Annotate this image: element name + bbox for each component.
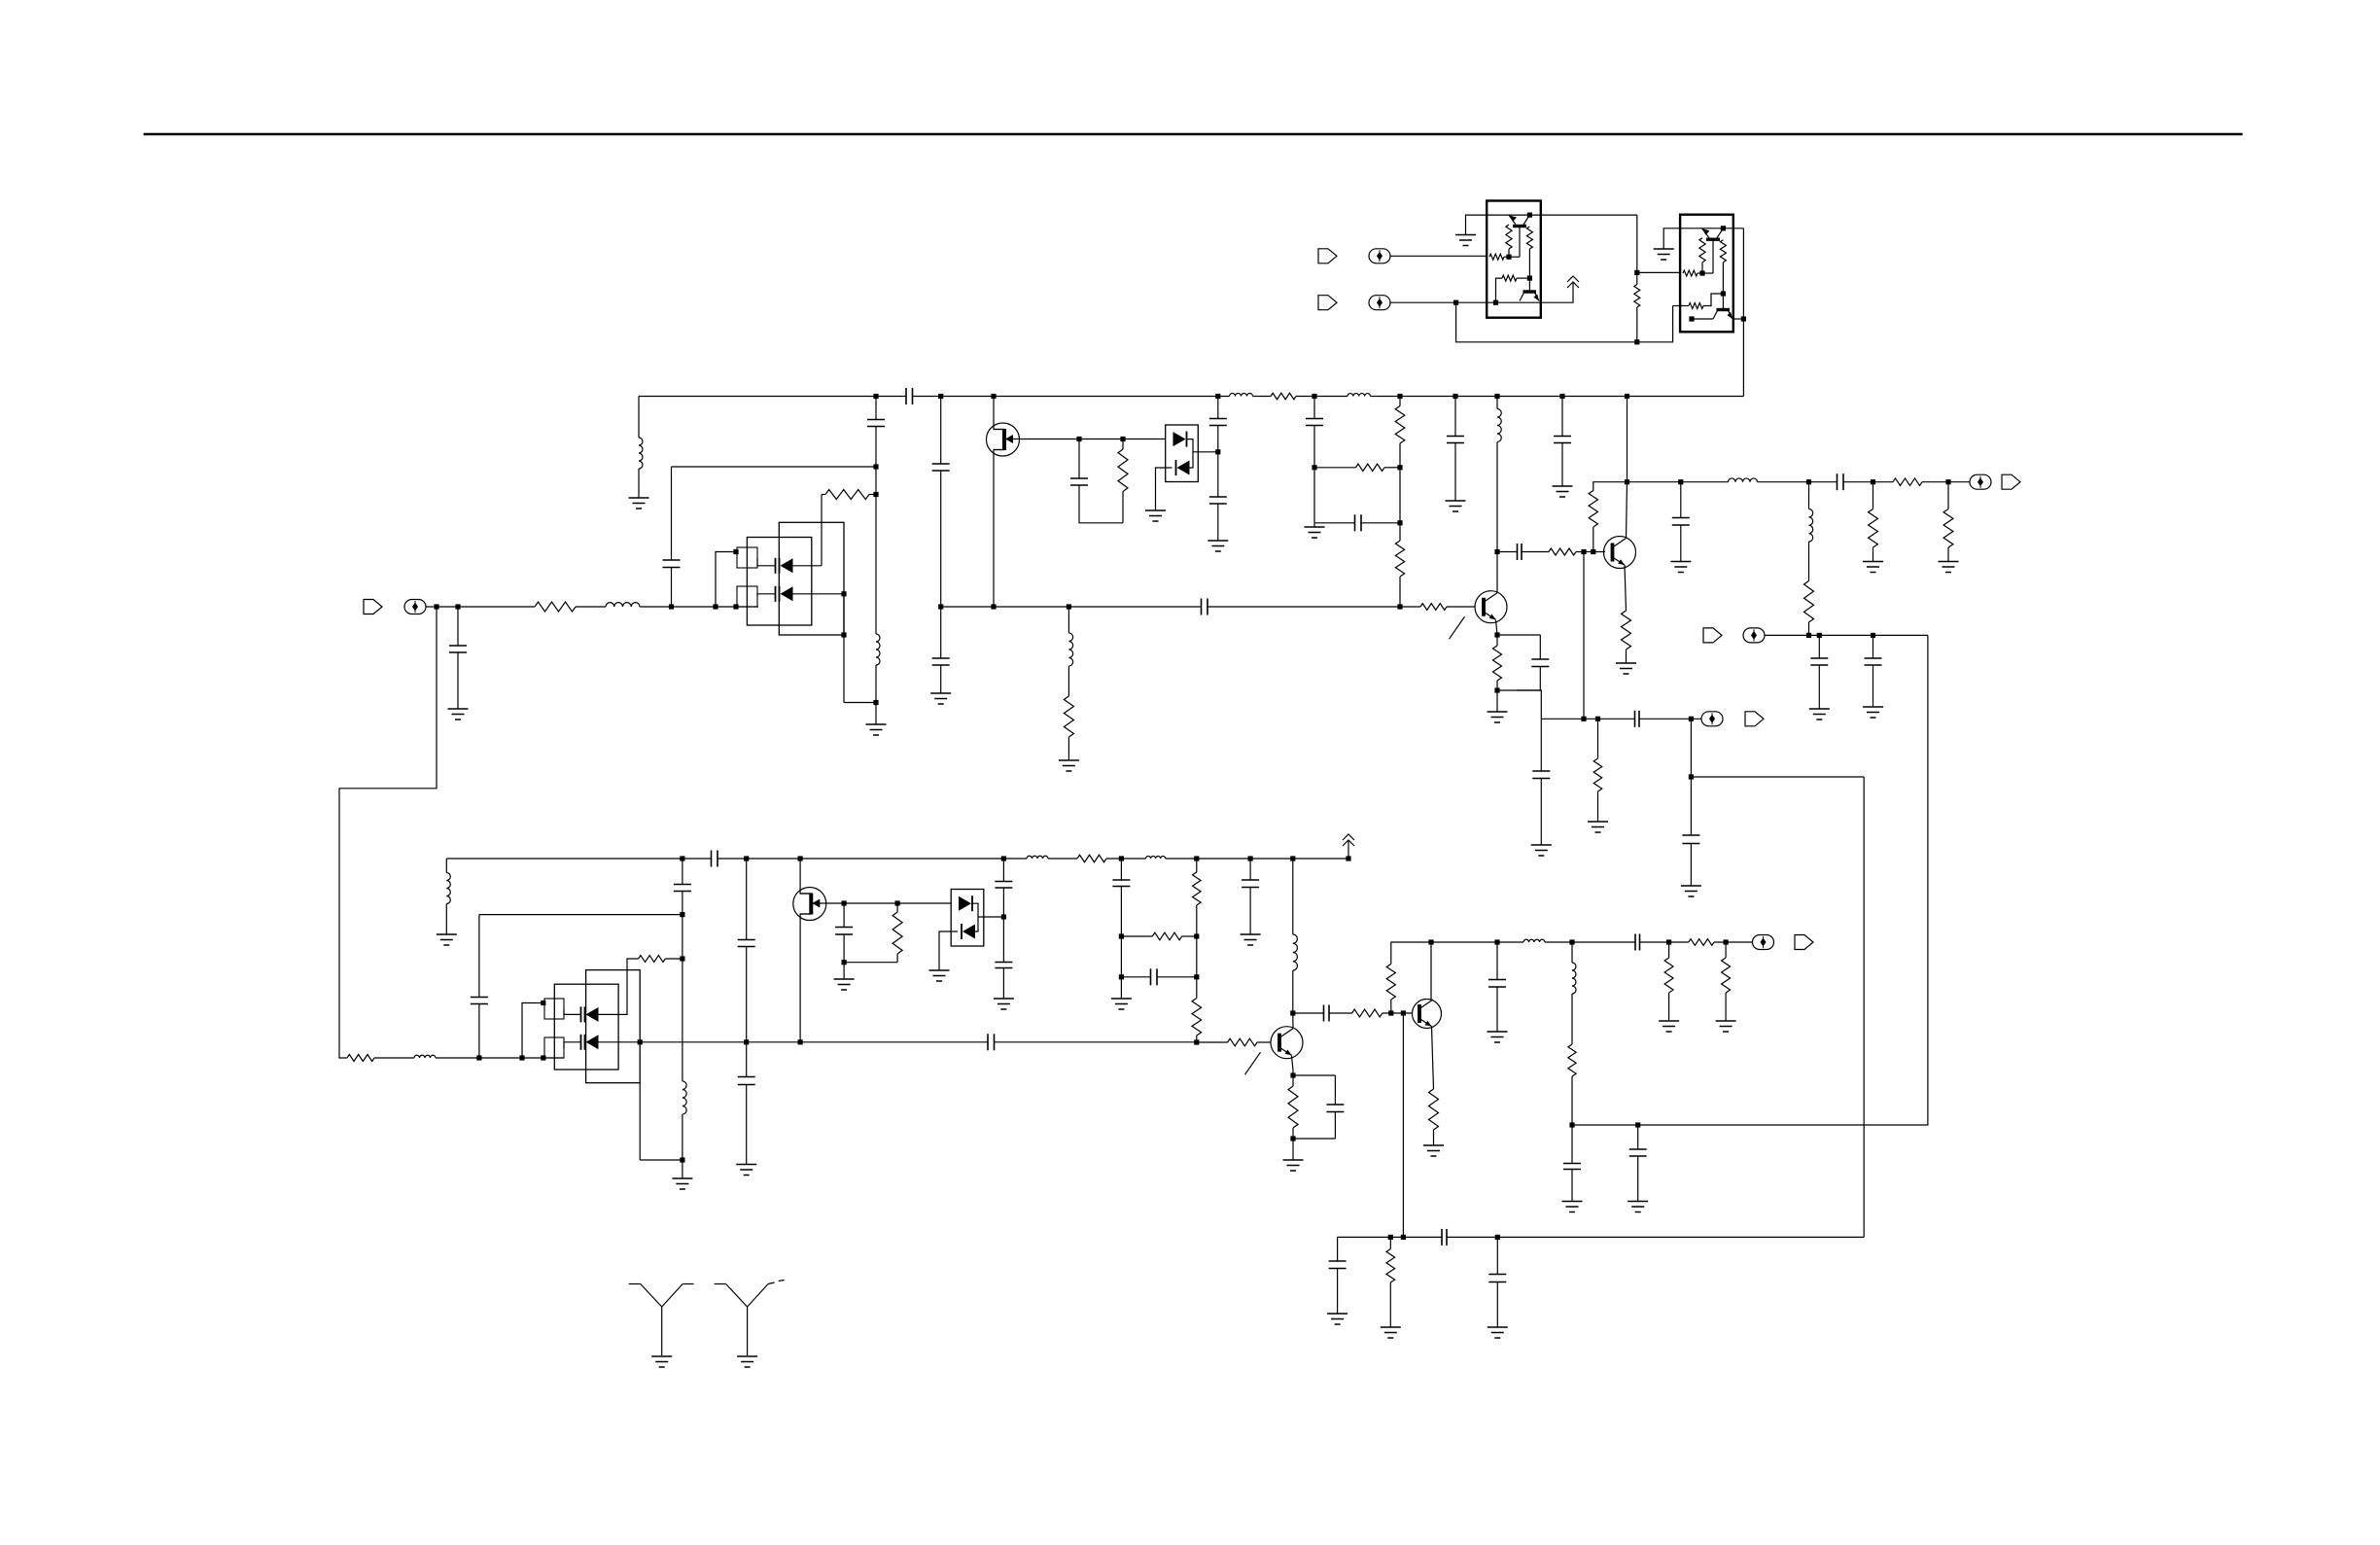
node: [1001, 856, 1006, 860]
wire: [875, 427, 877, 468]
node: [733, 549, 738, 554]
supply chevron: [1343, 834, 1354, 840]
capacitor C25: [674, 884, 691, 886]
resistor R2: [825, 490, 869, 500]
node: [1290, 1136, 1295, 1141]
ic U2 outline: [1680, 215, 1733, 333]
diode D3b: [584, 1035, 586, 1050]
node: [1388, 1010, 1393, 1015]
node: [873, 700, 878, 705]
wire: [1519, 227, 1521, 258]
capacitor C37 series: [1323, 1005, 1325, 1022]
resistor R27: [1192, 999, 1202, 1036]
wire: [1561, 397, 1563, 437]
node: [1569, 1122, 1574, 1127]
wire: [1334, 1075, 1336, 1105]
wire rail2: [1166, 858, 1348, 860]
wire: [665, 958, 682, 960]
wire: [1872, 547, 1874, 562]
wire: [736, 606, 758, 608]
resistor R1: [535, 602, 576, 612]
wire: [1217, 452, 1219, 497]
package D1 outline rear: [779, 522, 844, 635]
capacitor C3: [867, 419, 885, 421]
wire: [1391, 942, 1431, 964]
transistor U2 Qa: [1706, 237, 1720, 240]
node: [1527, 213, 1532, 218]
capacitor C26 series: [711, 851, 713, 867]
wire: [1121, 976, 1150, 978]
wire: [1361, 522, 1400, 524]
wire: [1637, 1125, 1639, 1149]
node: [1595, 717, 1600, 721]
ground: [1659, 1020, 1679, 1022]
wire: [1122, 439, 1124, 450]
wire rail: [639, 396, 906, 398]
wire: [522, 1003, 543, 1059]
wire: [1663, 228, 1701, 249]
node: [1452, 394, 1457, 399]
wire: [746, 859, 748, 940]
ground: [1241, 933, 1261, 935]
wire: [875, 495, 877, 635]
connector J4 output: [1701, 712, 1723, 726]
wire: [1947, 547, 1949, 562]
inductor L4: [1068, 633, 1072, 666]
node: [798, 856, 803, 860]
ground: [672, 1177, 692, 1179]
wire out3: [1431, 941, 1523, 943]
node: [1215, 449, 1220, 454]
ground: [1487, 1031, 1508, 1033]
wire: [599, 959, 639, 1014]
wire: [875, 665, 877, 703]
wire: [1947, 482, 1949, 509]
wire: [1597, 791, 1599, 822]
wire: [374, 1057, 414, 1059]
capacitor C43: [1329, 1260, 1347, 1262]
wire: [822, 494, 825, 496]
diode D1a: [779, 558, 781, 574]
wire: [1765, 634, 1928, 636]
wire: [1079, 485, 1123, 523]
wire: [437, 606, 458, 608]
capacitor C10: [1209, 496, 1227, 498]
capacitor C9: [1209, 418, 1227, 420]
resistor R15: [1869, 509, 1878, 548]
capacitor C35 series: [987, 1034, 989, 1050]
inductor L21: [414, 1055, 436, 1058]
resistor R13: [1893, 478, 1922, 486]
node: [519, 1055, 524, 1060]
wire 480-line: [672, 466, 877, 468]
capacitor C7 series: [1201, 599, 1203, 615]
capacitor C33 series: [1150, 968, 1152, 985]
wire rail: [1253, 396, 1272, 398]
wire: [1496, 1237, 1498, 1274]
wire: [1540, 779, 1542, 846]
ground: [930, 692, 951, 694]
resistor R25: [1152, 932, 1181, 940]
pin stub upper: [737, 547, 757, 568]
diode D4b: [961, 924, 962, 939]
package D1 outline front: [747, 538, 811, 626]
ground: [1588, 821, 1608, 823]
wire: [1639, 718, 1701, 720]
transistor Q5 BJT: [1271, 1027, 1303, 1059]
inductor L5: [1230, 394, 1253, 397]
wire: [436, 1057, 479, 1059]
node: [1721, 226, 1726, 230]
wire: [1690, 719, 1692, 777]
wire: [1692, 318, 1713, 320]
wire: [1337, 1269, 1339, 1315]
wire: [1626, 650, 1627, 663]
wire: [1002, 968, 1004, 1000]
connector J5 keyed input: [1318, 249, 1337, 263]
wire rail: [1371, 396, 1744, 398]
wire: [1292, 1071, 1294, 1075]
wire: [1293, 1138, 1335, 1140]
node: [938, 604, 943, 609]
node: [895, 900, 900, 905]
node: [873, 492, 878, 497]
wire: [1723, 228, 1743, 229]
node: [1494, 394, 1499, 399]
inductor L7: [1497, 409, 1501, 442]
capacitor C17: [1672, 517, 1690, 519]
diode D3a: [584, 1006, 586, 1022]
wire: [746, 1085, 748, 1165]
wire: [1002, 917, 1004, 963]
wire: [972, 903, 1003, 917]
ground: [437, 933, 457, 935]
wire: [1466, 215, 1510, 234]
package D4 outline: [951, 890, 984, 947]
wire: [682, 959, 683, 1081]
wire: [1313, 426, 1315, 468]
node: [1806, 479, 1811, 484]
wire: [1121, 935, 1152, 937]
wire: [1292, 1075, 1294, 1086]
wire: [1120, 859, 1122, 880]
ground: [994, 998, 1014, 1000]
wire: [1496, 278, 1503, 302]
node: [1741, 316, 1746, 321]
wire: [1313, 468, 1315, 523]
node: [1388, 1235, 1393, 1240]
wire: [1668, 993, 1670, 1021]
wire: [543, 1057, 564, 1059]
node: [541, 1055, 545, 1060]
wire: [1517, 690, 1541, 719]
ic U1 outline: [1487, 201, 1541, 318]
ground: [1487, 1326, 1508, 1328]
ground: [866, 723, 887, 725]
inductor L3: [639, 438, 643, 469]
wire: [1690, 844, 1692, 887]
wire: [1456, 302, 1637, 342]
antenna symbol 1: [661, 1307, 663, 1355]
resistor U1 Rin: [1489, 254, 1504, 260]
wire: [1182, 935, 1197, 937]
capacitor C18: [1810, 657, 1828, 659]
wire emitter: [1625, 565, 1627, 611]
wire rail2: [1048, 858, 1077, 860]
wire: [1078, 439, 1080, 479]
wire: [1504, 256, 1520, 258]
ground: [929, 969, 950, 971]
wire emitter: [1432, 1027, 1434, 1090]
ground: [1562, 1201, 1583, 1203]
wire vertical to rowB: [1402, 1013, 1404, 1237]
wire feedback mid: [1863, 777, 1865, 1237]
ground: [1446, 500, 1466, 502]
wire: [1922, 481, 1970, 483]
wire: [671, 467, 673, 560]
wire: [1249, 859, 1251, 880]
wire: [843, 594, 845, 635]
wire: [1571, 1170, 1573, 1202]
wire: [1818, 635, 1820, 658]
wire: [1539, 667, 1541, 691]
wire feedback right: [1572, 635, 1928, 1125]
inductor L8: [1729, 478, 1758, 482]
capacitor C20: [1531, 658, 1549, 660]
ground: [1863, 561, 1883, 563]
wire: [522, 1057, 543, 1059]
resistor R14: [1804, 581, 1814, 623]
node: [938, 394, 943, 399]
wire: [1497, 551, 1518, 553]
package D2 outline: [1166, 425, 1199, 482]
wire: [1187, 439, 1218, 452]
wire rail2: [1106, 858, 1146, 860]
wire: [1293, 1074, 1335, 1076]
wire: [1539, 635, 1541, 659]
node: [680, 912, 684, 917]
wire: [940, 607, 942, 658]
wire: [1067, 666, 1069, 696]
wire: [1197, 1041, 1228, 1043]
wire row: [1487, 301, 1541, 303]
resistor R28: [1228, 1038, 1257, 1046]
wire: [682, 892, 683, 915]
wire: [1329, 1012, 1352, 1014]
node: [1076, 437, 1081, 441]
wire gate: [1019, 439, 1166, 440]
node: [1569, 939, 1574, 944]
wire rail: [913, 396, 1230, 398]
wire: [844, 962, 897, 964]
node: [873, 464, 878, 469]
ground: [1145, 509, 1166, 511]
wire: [1217, 426, 1219, 452]
wire: [843, 934, 845, 963]
wire: [1196, 905, 1198, 936]
wire: [478, 1004, 480, 1058]
wire: [1637, 1156, 1639, 1202]
wire: [1002, 859, 1004, 882]
ground: [1863, 706, 1883, 708]
pin stub lower: [737, 586, 757, 607]
wire: [478, 915, 480, 998]
wire: [843, 635, 845, 703]
ground: [1327, 1313, 1347, 1315]
wire: [1399, 397, 1401, 406]
capacitor C16 series: [1837, 474, 1838, 490]
capacitor C29: [835, 927, 853, 929]
wire: [1571, 1076, 1573, 1125]
capacitor C1: [449, 645, 467, 647]
connector J2 output: [1970, 474, 1991, 489]
node: [1194, 856, 1199, 860]
node: [1559, 394, 1564, 399]
node: [1871, 479, 1875, 484]
resistor R11: [1589, 491, 1597, 528]
wire: [875, 397, 877, 420]
node: [991, 604, 996, 609]
wire: [1496, 942, 1498, 980]
node: [680, 1157, 684, 1162]
node: [1494, 549, 1499, 554]
wire: [1571, 1125, 1573, 1164]
node: [1678, 479, 1683, 484]
inductor L9: [1809, 509, 1813, 543]
resistor R10: [1549, 548, 1576, 555]
ground: [448, 708, 469, 710]
ground: [1423, 1144, 1444, 1146]
ground: [1670, 561, 1691, 563]
wire: [1292, 970, 1294, 1013]
wire: [757, 594, 775, 596]
wire: [1680, 482, 1682, 518]
node: [842, 900, 847, 905]
wire: [1808, 482, 1810, 509]
wire: [875, 467, 877, 495]
wire: [896, 954, 898, 963]
wire: [1454, 443, 1456, 502]
node: [744, 856, 749, 860]
node: [842, 960, 847, 965]
wire: [1400, 606, 1420, 608]
resistor R4: [1064, 696, 1073, 737]
wire cont: [995, 1041, 1197, 1043]
wire: [1758, 481, 1837, 483]
wire: [1636, 307, 1638, 342]
wire: [1517, 277, 1529, 279]
capacitor C6: [932, 657, 950, 659]
wire: [939, 931, 958, 970]
wire: [640, 1159, 682, 1161]
capacitor C24: [471, 997, 488, 999]
ground: [1059, 759, 1079, 761]
wire: [1292, 1128, 1294, 1139]
resistor R19: [1634, 285, 1640, 308]
ground: [629, 497, 649, 499]
wire: [1196, 1036, 1198, 1042]
wire emitter: [1292, 1056, 1294, 1071]
node: [1689, 774, 1694, 779]
node: [1194, 1039, 1199, 1044]
wire: [1496, 1282, 1498, 1328]
resistor R34: [1568, 1044, 1576, 1076]
wire: [1545, 941, 1572, 943]
ground: [1455, 234, 1476, 236]
node: [744, 1039, 749, 1044]
resistor R31: [1429, 1089, 1439, 1130]
resistor U2 Rin: [1683, 270, 1697, 276]
wire: [1067, 737, 1069, 760]
inductor L6: [1347, 394, 1371, 397]
wire: [1701, 263, 1703, 273]
transistor Q4 MOSFET: [793, 888, 826, 921]
wire: [1120, 887, 1122, 937]
capacitor C41: [1629, 1148, 1647, 1150]
diode D1b: [779, 586, 781, 602]
capacitor C8: [1070, 477, 1088, 479]
ground: [1716, 1020, 1736, 1022]
capacitor C27: [738, 939, 755, 941]
node: [1506, 255, 1511, 260]
node pin jog upper: [713, 604, 717, 609]
wire: [800, 859, 811, 894]
wire: [1571, 942, 1573, 963]
wire: [457, 607, 459, 646]
capacitor C14: [1554, 436, 1571, 438]
wire: [479, 1057, 522, 1059]
wire: [1257, 1041, 1271, 1043]
wire: [844, 702, 876, 704]
resistor R23: [1077, 855, 1106, 862]
wire: [1399, 523, 1401, 541]
wire: [1390, 255, 1487, 257]
node pin jog lower: [733, 604, 738, 609]
capacitor C15 series: [1517, 544, 1519, 560]
node: [1067, 604, 1071, 609]
transistor Q1 MOSFET: [987, 423, 1020, 456]
wire: [800, 914, 811, 1042]
wire 940-line: [479, 914, 682, 916]
wire: [458, 606, 535, 608]
capacitor C4 series: [905, 388, 907, 404]
node: [1401, 1010, 1406, 1015]
node: [541, 1001, 545, 1005]
node: [1591, 549, 1595, 554]
wire: [1399, 443, 1401, 468]
wire: [682, 859, 683, 885]
wire rail2 stub: [445, 859, 447, 873]
wire: [426, 606, 437, 608]
wire: [1157, 976, 1197, 978]
inductor L25: [446, 873, 450, 904]
node: [1119, 933, 1124, 938]
package D3 outline front: [554, 984, 618, 1070]
wire collector: [1496, 552, 1498, 593]
wire: [1742, 228, 1744, 397]
node: [1397, 520, 1402, 525]
wire: [843, 963, 845, 979]
wire: [1572, 941, 1635, 943]
node: [1806, 633, 1811, 638]
inductor L1: [606, 603, 640, 607]
node: [1194, 974, 1199, 979]
inductor L26: [1293, 934, 1298, 970]
wire: [821, 495, 822, 566]
wire: [1249, 888, 1251, 935]
resistor R5: [1118, 449, 1128, 492]
wire: [1637, 271, 1680, 273]
